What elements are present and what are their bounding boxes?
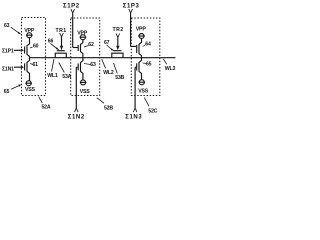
svg-text:61: 61: [33, 62, 39, 68]
node VSS terminal box2: [80, 80, 87, 85]
svg-text:Σ1N2: Σ1N2: [68, 114, 85, 120]
transistor TR1 66 pass transistor on word line: [55, 33, 66, 58]
transistor Q64 PMOS box3: [131, 39, 142, 58]
svg-text:Σ1P1: Σ1P1: [2, 48, 14, 54]
transistor Q65 NMOS box3: [135, 58, 141, 80]
svg-text:Σ1P3: Σ1P3: [123, 3, 140, 9]
svg-text:64: 64: [145, 42, 151, 48]
node VPP terminal box3: [138, 34, 145, 39]
wire SIGMA1P3 control line: [129, 9, 133, 46]
svg-text:TR1: TR1: [56, 28, 67, 34]
svg-text:67: 67: [104, 40, 110, 46]
svg-text:65: 65: [146, 62, 152, 68]
leader for label 62: [84, 46, 89, 48]
node VSS terminal box3: [139, 80, 146, 85]
svg-text:VSS: VSS: [138, 89, 149, 95]
leader for label WL3: [163, 59, 167, 65]
svg-text:TR2: TR2: [113, 27, 124, 33]
leader for label 52A: [39, 97, 43, 103]
leader for label 63b: [84, 64, 91, 65]
leader for label 52C: [144, 98, 149, 107]
svg-text:Σ1P2: Σ1P2: [63, 3, 80, 9]
svg-text:63: 63: [4, 23, 10, 29]
svg-text:WL2: WL2: [103, 70, 114, 76]
leader for label 53B: [114, 63, 118, 74]
leader for label 60: [30, 47, 33, 48]
svg-text:VPP: VPP: [77, 31, 88, 37]
svg-text:52C: 52C: [148, 109, 157, 115]
svg-text:Σ1N3: Σ1N3: [125, 114, 142, 120]
driver box 52A dashed outline: [22, 18, 46, 96]
node VSS terminal box1: [25, 81, 32, 86]
leader for label WL2: [102, 59, 106, 68]
svg-text:VSS: VSS: [80, 89, 91, 95]
leader for label 65b: [143, 62, 147, 65]
leader for label 66: [51, 44, 60, 51]
svg-text:VSS: VSS: [25, 87, 36, 93]
svg-text:WL1: WL1: [47, 73, 58, 79]
svg-text:52B: 52B: [104, 106, 113, 112]
svg-text:60: 60: [33, 44, 39, 50]
driver box 52C dashed outline: [131, 18, 160, 96]
svg-text:WL3: WL3: [165, 66, 176, 72]
svg-text:Σ1N1: Σ1N1: [2, 66, 14, 72]
svg-text:65: 65: [4, 89, 10, 95]
svg-text:VPP: VPP: [136, 27, 147, 33]
wire SIGMA1P2 control line: [71, 9, 75, 48]
leader for label 53A: [59, 63, 65, 73]
svg-text:53A: 53A: [62, 74, 71, 80]
leader for label 52B: [97, 98, 104, 104]
svg-text:53B: 53B: [115, 75, 124, 81]
transistor Q63 NMOS box2: [76, 58, 83, 80]
svg-text:62: 62: [88, 42, 94, 48]
leader for label 61: [30, 64, 33, 65]
leader for label 67: [107, 45, 115, 51]
transistor Q62 PMOS box2: [73, 40, 83, 58]
leader for label 64: [143, 45, 146, 47]
leader for label 65 bottom-left: [11, 85, 21, 90]
wire SIGMA1N3 control line: [133, 67, 137, 112]
svg-text:VPP: VPP: [24, 28, 35, 34]
wire SIGMA1N2 control line: [75, 67, 79, 112]
transistor Q61 NMOS box1: [14, 58, 30, 81]
svg-text:66: 66: [48, 39, 54, 45]
wire WL horizontal word line: [30, 57, 176, 59]
svg-text:52A: 52A: [42, 105, 51, 111]
leader for label WL1: [52, 59, 55, 72]
transistor TR2 67 pass transistor on word line: [112, 34, 123, 58]
driver box 52B dashed outline: [71, 18, 100, 96]
transistor Q60 PMOS box1: [14, 38, 30, 58]
node VPP terminal box1: [26, 33, 33, 38]
svg-text:63: 63: [90, 62, 96, 68]
leader for label 63 top-left: [11, 27, 22, 34]
node VPP terminal box2: [80, 35, 87, 40]
